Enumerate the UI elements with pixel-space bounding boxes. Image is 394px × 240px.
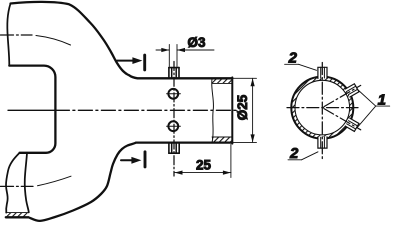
svg-text:2: 2 xyxy=(288,50,298,67)
svg-text:Ø25: Ø25 xyxy=(235,94,250,120)
svg-text:1: 1 xyxy=(378,92,386,109)
svg-text:Ø3: Ø3 xyxy=(188,35,207,50)
svg-text:25: 25 xyxy=(196,158,212,173)
svg-text:2: 2 xyxy=(289,145,299,162)
